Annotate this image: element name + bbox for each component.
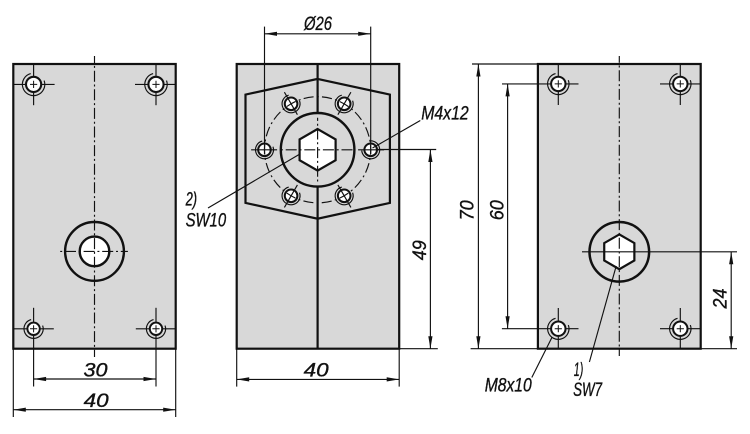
hole crosshair top-right	[135, 83, 175, 85]
dimension 24 line	[730, 252, 732, 349]
dimension 30 line	[34, 378, 156, 380]
M4 hole radial centerline 60deg	[338, 92, 351, 115]
tapped hole M4 bottom-left view1	[27, 323, 39, 335]
tapped hole bottom-right view3	[673, 322, 687, 336]
boss vertical centerline	[317, 118, 319, 182]
hex socket SW10 view2	[300, 129, 336, 171]
svg-text:24: 24	[711, 289, 732, 310]
svg-text:49: 49	[410, 240, 431, 260]
dimension Ø26 extension lines	[264, 27, 266, 154]
center hole M8 inner circle	[80, 237, 110, 267]
hole crosshair top-right view3	[660, 83, 701, 85]
M4 hole radial centerline 300deg	[338, 185, 351, 208]
dimension 49 arrow up	[428, 150, 432, 163]
M4 hole radial centerline 180deg	[251, 149, 277, 151]
dimension 60 arrow up	[506, 84, 510, 97]
dimension 40 arrow left view1	[13, 408, 25, 412]
center hole M8 counterbore circle	[65, 222, 124, 281]
tapped hole M4x12 at 120deg	[285, 98, 298, 111]
label M4x12 leader	[373, 121, 421, 149]
hole crosshair top-left	[14, 83, 55, 85]
tapped hole M5 top-right view1	[148, 77, 163, 92]
dimension 49 line	[429, 150, 431, 349]
dimension Ø26 arrow right	[358, 32, 371, 36]
tapped hole M4x12 at 300deg	[338, 190, 351, 203]
dimension 60 line	[507, 84, 509, 329]
svg-text:40: 40	[304, 361, 330, 382]
dimension 70 extension bottom	[471, 348, 538, 350]
parting line upper segment	[317, 64, 319, 114]
dimension 60 arrow down	[506, 316, 510, 329]
hex socket SW7 view3	[604, 234, 634, 269]
view 1 (front) body plate	[13, 64, 175, 349]
hole crosshair bottom-right + extension line	[136, 328, 175, 330]
label M8x10 leader	[532, 338, 552, 378]
dimension Ø26 line	[265, 33, 371, 35]
tapped hole top-right view3	[673, 77, 687, 91]
dimension 49 arrow down	[428, 336, 432, 349]
dimension 24 arrow up	[729, 252, 733, 264]
hole crosshair bottom-left view3 + 60 extension	[502, 328, 579, 330]
boss horizontal centerline	[280, 149, 354, 151]
svg-text:SW10: SW10	[186, 211, 227, 232]
svg-text:60: 60	[488, 200, 509, 220]
tapped hole bottom-left view3	[551, 322, 565, 336]
tapped hole M5 top-left view1	[26, 77, 41, 92]
center hole horizontal centerline	[59, 250, 128, 252]
hole crosshair top-left view3 + 60 extension	[502, 83, 579, 85]
svg-text:SW7: SW7	[573, 380, 603, 401]
clamp prism outline polygon	[246, 79, 390, 219]
M4 hole radial centerline 240deg	[284, 185, 297, 208]
dimension 40 arrow left view2	[237, 377, 250, 381]
dimension 70 line	[477, 64, 479, 349]
dimension 70 arrow up	[476, 64, 480, 77]
svg-text:M4x12: M4x12	[421, 103, 469, 124]
dimension Ø26 arrow left	[265, 32, 278, 36]
hex boss circle view3	[590, 222, 650, 282]
M4 hole radial centerline 0deg	[358, 149, 384, 151]
dimension 40 line view2	[237, 378, 400, 380]
hole crosshair bottom-right view3	[660, 328, 701, 330]
tapped hole M4x12 at 180deg	[258, 144, 271, 157]
svg-text:Ø26: Ø26	[303, 14, 332, 35]
hex feature horizontal centerline + 24 extension	[582, 251, 737, 253]
parting line lower segment	[317, 186, 319, 348]
dimension 40 arrow right view2	[387, 377, 400, 381]
dimension 49 extension top	[377, 149, 436, 151]
dimension 70 arrow down	[476, 336, 480, 349]
view 1 vertical centerline	[94, 56, 96, 357]
svg-text:70: 70	[458, 200, 479, 220]
boss circle view2	[281, 113, 355, 187]
view 2 (top) body plate	[237, 64, 400, 349]
dimension 24 extension bottom	[701, 348, 737, 350]
tapped hole M4x12 at 0deg	[364, 144, 377, 157]
dimension 30 arrow left	[34, 377, 47, 381]
M4 hole radial centerline 120deg	[284, 92, 297, 115]
svg-text:2): 2)	[185, 189, 197, 210]
view 3 vertical centerline	[618, 56, 620, 356]
dimension 40 extension lines view2	[236, 349, 238, 387]
bolt circle Ø26 dash-dot	[265, 97, 371, 203]
label 2) SW10 leader	[208, 154, 300, 208]
tapped hole top-left view3	[551, 77, 565, 91]
tapped hole M4 bottom-right view1	[150, 323, 162, 335]
label 1) SW7 leader	[589, 266, 616, 362]
svg-text:M8x10: M8x10	[485, 375, 532, 396]
svg-text:30: 30	[84, 360, 108, 381]
dimension 24 arrow down	[729, 336, 733, 349]
dimension 30 arrow right	[144, 377, 157, 381]
dimension 40 line view1	[13, 409, 175, 411]
view 3 (side) body plate	[538, 64, 701, 349]
dimension 40 arrow right view1	[163, 408, 176, 412]
tapped hole M4x12 at 240deg	[285, 190, 298, 203]
svg-text:40: 40	[84, 391, 110, 412]
dimension 49 extension bottom	[399, 348, 438, 350]
dimension 70 extension top	[472, 63, 538, 65]
svg-text:1): 1)	[574, 360, 584, 381]
tapped hole M4x12 at 60deg	[338, 98, 351, 111]
hole crosshair bottom-left + extension line	[14, 328, 54, 330]
dimension 40 extension lines view1	[12, 349, 14, 417]
